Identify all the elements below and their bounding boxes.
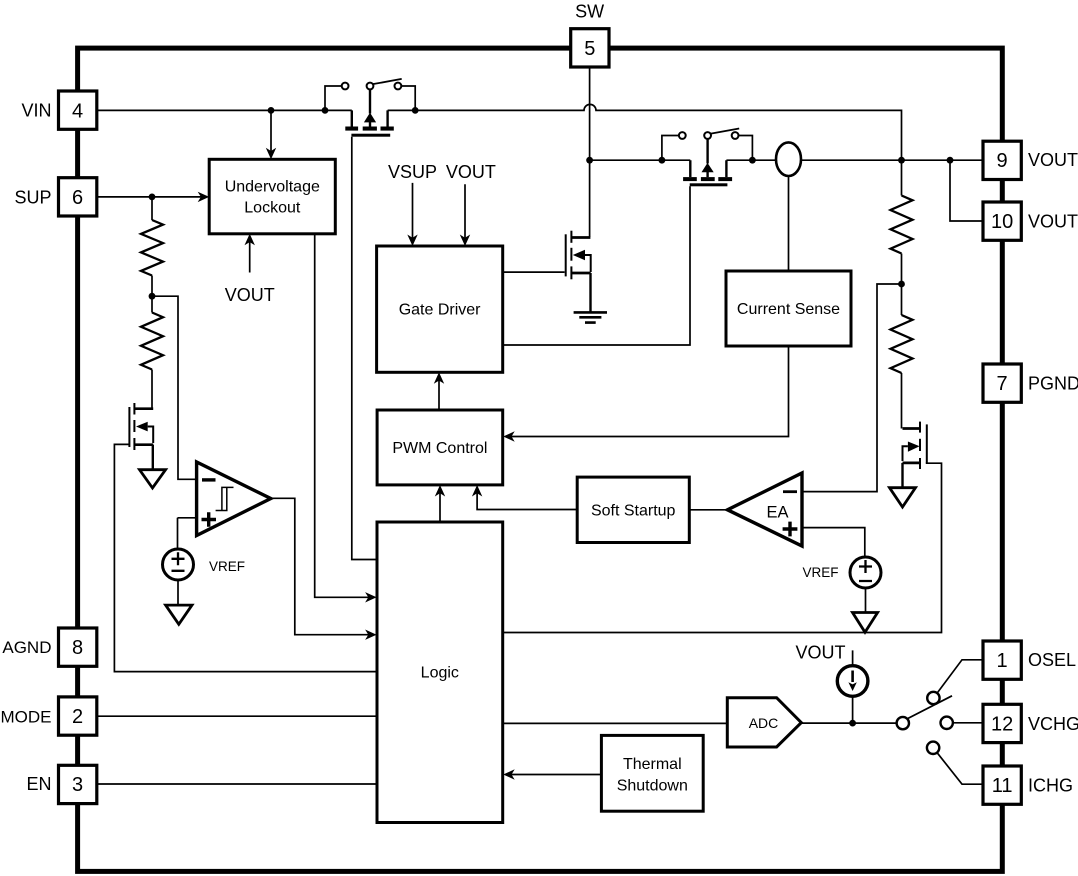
svg-text:Soft Startup: Soft Startup [591, 502, 676, 519]
svg-text:Logic: Logic [421, 665, 459, 682]
svg-text:VOUT: VOUT [225, 285, 275, 305]
svg-text:AGND: AGND [2, 638, 51, 657]
svg-text:6: 6 [72, 187, 83, 209]
svg-text:ADC: ADC [749, 715, 779, 731]
svg-text:OSEL: OSEL [1028, 650, 1076, 670]
svg-text:VREF: VREF [802, 565, 838, 580]
svg-text:Lockout: Lockout [244, 200, 301, 217]
svg-text:VOUT: VOUT [1028, 211, 1078, 231]
svg-text:1: 1 [997, 650, 1008, 672]
svg-text:SW: SW [575, 2, 604, 22]
svg-text:9: 9 [997, 150, 1008, 172]
svg-text:2: 2 [72, 706, 83, 728]
svg-text:5: 5 [584, 38, 595, 60]
svg-text:Thermal: Thermal [623, 756, 682, 773]
svg-text:MODE: MODE [1, 707, 52, 726]
svg-text:VREF: VREF [209, 559, 245, 574]
svg-text:4: 4 [72, 100, 83, 122]
svg-text:ICHG: ICHG [1028, 775, 1073, 795]
svg-text:PGND: PGND [1028, 373, 1078, 393]
svg-text:VCHG: VCHG [1028, 714, 1078, 734]
svg-text:12: 12 [991, 713, 1013, 735]
svg-text:10: 10 [991, 211, 1013, 233]
svg-text:VOUT: VOUT [795, 643, 845, 663]
svg-text:PWM Control: PWM Control [392, 440, 487, 457]
svg-text:8: 8 [72, 637, 83, 659]
svg-text:Undervoltage: Undervoltage [225, 179, 320, 196]
svg-text:SUP: SUP [14, 188, 51, 208]
svg-text:VIN: VIN [21, 100, 51, 120]
svg-text:3: 3 [72, 774, 83, 796]
svg-text:Current Sense: Current Sense [737, 301, 840, 318]
svg-text:VOUT: VOUT [1028, 150, 1078, 170]
svg-text:11: 11 [992, 775, 1013, 797]
svg-text:Gate Driver: Gate Driver [399, 302, 481, 319]
svg-text:EA: EA [766, 504, 788, 522]
svg-text:EN: EN [26, 774, 51, 794]
svg-text:Shutdown: Shutdown [617, 778, 688, 795]
svg-text:VSUP: VSUP [388, 162, 437, 182]
svg-text:7: 7 [997, 373, 1008, 395]
svg-text:VOUT: VOUT [446, 162, 496, 182]
